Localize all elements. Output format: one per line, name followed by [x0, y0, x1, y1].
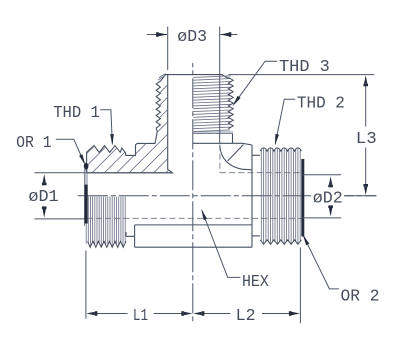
- svg-text:HEX: HEX: [242, 273, 269, 292]
- ØD3 right dimension arrow: [220, 34, 237, 36]
- ØD2 upper extension line: [303, 174, 342, 176]
- hidden main bore upper line right side (dashed): [220, 172, 302, 174]
- hex bottom edge: [135, 246, 252, 248]
- svg-text:øD3: øD3: [177, 28, 207, 47]
- svg-text:THD 2: THD 2: [297, 95, 345, 114]
- ØD1 lower arrow: [43, 209, 46, 218]
- HEX leader: [202, 211, 241, 278]
- left port face line: [85, 169, 87, 244]
- left port thread crest zigzag bottom edge: [88, 241, 127, 247]
- L2 left arrow: [193, 312, 202, 315]
- ØD2 lower arrow: [329, 208, 332, 217]
- THD 1 leader: [100, 110, 112, 144]
- ØD3 right extension line (continues through branch threads): [219, 27, 221, 144]
- o-ring OR 1 cross-section blob (left port face): [84, 163, 89, 170]
- right port thread crest zigzag bottom edge: [260, 240, 301, 244]
- OR 2 leader: [304, 236, 339, 289]
- branch THD 3 external thread helix lines: [193, 76, 231, 132]
- L2 dimension line: [203, 313, 292, 315]
- L2 right arrow: [292, 312, 301, 315]
- left port / branch section outline (THD 1 thread profile, relief groove, branch thread profile): [87, 75, 173, 173]
- L3 top extension line (branch face extended): [228, 74, 374, 76]
- L1 left extension line: [85, 251, 87, 319]
- ØD2 lower extension line: [303, 217, 342, 219]
- left port neck bottom edge: [126, 232, 135, 236]
- left port THD 1 external thread lines: [88, 197, 125, 247]
- L1 left arrow: [86, 312, 95, 315]
- branch top-left chamfer dog-ear: [158, 74, 166, 81]
- branch top face line: [166, 75, 229, 79]
- body-to-branch fillet arc: [220, 146, 252, 170]
- hidden main bore lower line (dashed): [87, 217, 302, 219]
- ØD3 left extension line: [167, 27, 169, 71]
- L3 dimension line: [365, 84, 367, 187]
- o-ring OR 1 thin edges: [85, 170, 87, 186]
- svg-text:L3: L3: [356, 130, 377, 149]
- svg-text:øD2: øD2: [313, 190, 343, 209]
- svg-text:L1: L1: [133, 307, 148, 326]
- ØD1 upper arrow: [43, 174, 46, 183]
- hidden branch bore right wall (dashed): [219, 144, 221, 172]
- hex lower flat edge line: [135, 224, 252, 226]
- branch thread crest zigzag right edge: [228, 77, 233, 128]
- body top face line (right half): [193, 143, 252, 145]
- svg-text:OR 2: OR 2: [341, 287, 380, 306]
- svg-text:OR 1: OR 1: [16, 134, 52, 153]
- ØD2 upper arrow: [329, 176, 332, 185]
- centerline right extension to L3 (solid): [345, 195, 377, 197]
- ØD1 lower extension line: [34, 218, 85, 220]
- right port thread crest bumps top edge: [260, 148, 301, 151]
- OR 1 leader: [56, 139, 85, 163]
- THD 3 leader: [234, 61, 277, 104]
- svg-text:THD 1: THD 1: [53, 104, 100, 123]
- hex right face: [251, 145, 253, 247]
- vertical centerline of branch: [192, 63, 194, 323]
- horizontal centerline: [77, 195, 376, 197]
- section hatching 45-degree lines: [48, 60, 279, 180]
- L3 bottom arrow: [364, 187, 367, 196]
- o-ring OR 1 band (left port face, external): [84, 185, 87, 224]
- ØD2 label white backing: [311, 188, 344, 205]
- right port neck bottom edge: [252, 235, 260, 237]
- L2 right extension line: [299, 248, 301, 324]
- hex left face: [134, 225, 136, 247]
- branch thread bottom runout line: [193, 132, 233, 133]
- ØD3 left dimension arrow: [147, 34, 167, 36]
- branch neck right edge: [232, 133, 234, 143]
- svg-text:L2: L2: [236, 307, 256, 326]
- o-ring OR 2 band (right port face): [301, 159, 304, 237]
- svg-text:THD 3: THD 3: [279, 58, 330, 77]
- L1 dimension line: [96, 313, 184, 315]
- body-to-branch chamfer ridge: [228, 145, 244, 161]
- right port THD 2 external thread lines: [261, 148, 300, 243]
- THD 2 leader: [275, 99, 295, 143]
- L3 top arrow: [364, 75, 367, 84]
- main bore top wall (section, solid) with ØD1 upper extension: [34, 172, 172, 174]
- svg-text:øD1: øD1: [28, 188, 58, 207]
- L1 right arrow: [184, 312, 193, 315]
- right port neck top edge: [252, 154, 260, 156]
